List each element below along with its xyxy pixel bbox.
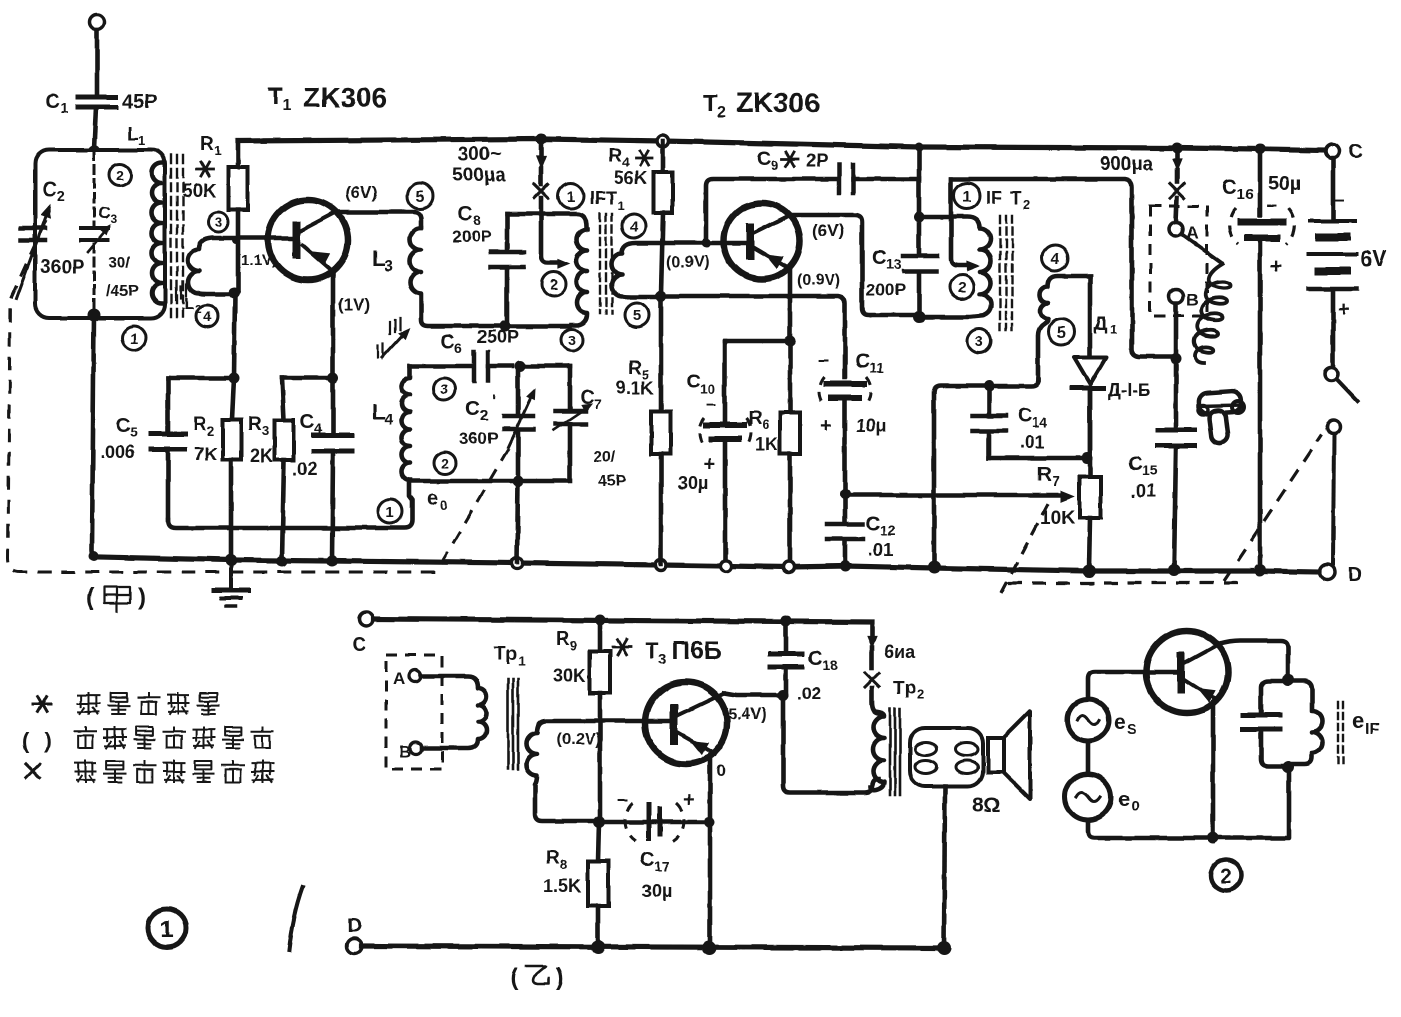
svg-text:10µ: 10µ — [856, 416, 886, 436]
input dashed box — [386, 655, 442, 769]
wire R7 wiper arrow — [845, 493, 1062, 498]
coil IFT1 secondary — [612, 243, 664, 297]
node C11/C12/R7 junction — [840, 489, 851, 500]
resistor R6 1K — [780, 412, 800, 454]
node rail C16 — [1255, 144, 1266, 155]
resistor R9 30K — [598, 620, 603, 651]
svg-text:e: e — [1118, 788, 1130, 811]
svg-text:2: 2 — [550, 276, 558, 293]
coil L4 oscillator — [402, 366, 411, 480]
node C14 top — [984, 381, 995, 392]
svg-text:360P: 360P — [459, 429, 499, 448]
current break mark x — [534, 184, 548, 198]
svg-text:IF: IF — [1365, 721, 1379, 738]
capacitor C14 .01 — [987, 386, 992, 412]
transformer Tp1 secondary / T3 base wire — [527, 721, 671, 821]
svg-text:C: C — [458, 203, 472, 225]
node rail C18 — [781, 616, 792, 627]
capacitor C13 200P — [903, 254, 937, 259]
svg-text:R: R — [608, 146, 622, 167]
capacitor C15 .01 — [1174, 359, 1179, 427]
svg-text:+: + — [820, 415, 832, 437]
switch blade A to cord — [1182, 234, 1222, 263]
capacitor C11 10u electrolytic — [826, 381, 864, 387]
svg-text:C: C — [45, 91, 59, 113]
node rail C2-prime — [512, 558, 523, 569]
svg-text:–: – — [818, 349, 829, 371]
wire tank bottom to ground rail — [92, 315, 99, 557]
tank enclosure box L1/C2/C3 — [35, 150, 165, 318]
resistor R1 50K — [236, 141, 241, 167]
legend text line 3 — [75, 761, 96, 782]
svg-text:3: 3 — [658, 651, 666, 668]
svg-text:C: C — [352, 634, 366, 656]
svg-text:3: 3 — [440, 381, 448, 397]
node ground rail C15 — [1168, 564, 1180, 576]
node lower ground rail R8 — [591, 940, 605, 954]
wire antenna to C1 — [95, 30, 100, 93]
power switch — [1325, 368, 1338, 381]
svg-text:2: 2 — [441, 455, 449, 471]
node emitter/C17 junction — [704, 817, 715, 828]
svg-text:20/: 20/ — [593, 449, 616, 466]
wire L4 tap to C2-prime bottom — [410, 479, 566, 484]
pin 4 of L2 — [196, 305, 218, 327]
svg-text:30µ: 30µ — [642, 881, 672, 901]
svg-text:1: 1 — [567, 189, 576, 206]
wire detector line 900ua — [951, 179, 1172, 357]
svg-text:45P: 45P — [598, 473, 627, 490]
svg-text:R: R — [1037, 464, 1052, 486]
svg-text:(6V): (6V) — [345, 183, 377, 202]
pin 2 of L1 — [109, 164, 131, 186]
svg-text:7: 7 — [594, 396, 602, 412]
svg-text:30/: 30/ — [108, 255, 131, 272]
pin 5 of IFT1 — [625, 303, 649, 327]
pin 3 of IFT2 — [967, 329, 991, 353]
svg-text:.02: .02 — [292, 459, 317, 479]
node emitter/R3 junction — [328, 373, 339, 384]
legend x symbol — [26, 764, 40, 778]
svg-text:16: 16 — [1237, 186, 1254, 203]
node rail R4 — [657, 135, 669, 147]
svg-text:C: C — [300, 411, 314, 433]
transformer Tp1 primary — [421, 676, 487, 748]
svg-text:1: 1 — [160, 916, 173, 943]
svg-text:1: 1 — [1110, 322, 1117, 337]
svg-text:5: 5 — [416, 189, 425, 206]
node ground rail R7 — [1083, 565, 1096, 578]
node emitter bottom — [1207, 832, 1219, 844]
svg-text:0: 0 — [440, 497, 448, 513]
svg-text:2: 2 — [917, 687, 924, 702]
svg-text:+: + — [1338, 298, 1350, 321]
current break mark x 6ua — [865, 673, 879, 687]
pin 1 of L4 — [378, 499, 402, 523]
svg-text:15: 15 — [1142, 462, 1158, 478]
antenna terminal — [90, 15, 105, 30]
svg-text:4: 4 — [630, 218, 639, 235]
capacitor C4 .02 — [314, 433, 352, 438]
pin 3 of L2 — [208, 212, 228, 232]
current break mark x 900ua — [1170, 184, 1184, 198]
svg-text:0: 0 — [716, 761, 725, 780]
wire C1 to tank box — [94, 107, 96, 149]
wire IFT1-4 to T2 base — [663, 241, 747, 246]
svg-text:Tp: Tp — [893, 678, 916, 699]
svg-text:Д: Д — [1094, 314, 1108, 335]
svg-text:A: A — [393, 669, 405, 688]
svg-text:7K: 7K — [194, 444, 217, 464]
svg-text:T: T — [703, 90, 718, 117]
svg-text:T: T — [1010, 188, 1021, 208]
wire bottom loop — [1088, 773, 1289, 838]
capacitor C12 .01 — [827, 522, 863, 527]
node rail R3 — [277, 556, 288, 567]
pin 2 of L4 — [434, 452, 456, 474]
svg-text:.01: .01 — [1131, 481, 1156, 501]
resistor R2 7K — [232, 378, 234, 420]
svg-text:9: 9 — [570, 638, 577, 653]
node base line crossing — [232, 236, 240, 244]
wire lower supply rail — [373, 619, 872, 622]
node emitter/C10 junction — [785, 336, 796, 347]
svg-text:C: C — [640, 849, 654, 871]
svg-text:C: C — [872, 247, 886, 269]
pin 1 of IFT1 — [558, 183, 584, 209]
label circled 2 — [1211, 860, 1242, 891]
svg-text:–: – — [1266, 195, 1277, 216]
wire T1 collector to L3 — [336, 212, 421, 228]
core of L1/L2 transformer — [170, 155, 172, 318]
capacitor C18 .02 — [784, 621, 789, 651]
svg-text:9.1K: 9.1K — [616, 378, 654, 398]
svg-text:П6Б: П6Б — [672, 637, 722, 665]
wire C14 to R7 top — [989, 456, 1087, 461]
svg-text:1: 1 — [963, 189, 972, 206]
capacitor C10 30u electrolytic — [725, 339, 790, 344]
svg-text:.01: .01 — [868, 540, 893, 560]
svg-text:T: T — [268, 83, 283, 110]
svg-text:18: 18 — [822, 657, 838, 673]
coil IFT2 secondary — [1038, 276, 1090, 380]
core of Tp1 — [507, 679, 510, 769]
node lower ground rail Tp2 — [937, 941, 951, 955]
svg-text:2: 2 — [717, 104, 726, 121]
wire Tp2 secondary to ground rail — [944, 786, 945, 947]
svg-text:1.5K: 1.5K — [543, 876, 581, 896]
dashed linkage right R7 and switch — [1001, 500, 1050, 593]
svg-text:): ) — [44, 728, 51, 753]
svg-text:200P: 200P — [866, 280, 906, 299]
pin 3 of IFT1 — [561, 329, 583, 351]
wire T1 emitter to C4 — [331, 272, 336, 432]
node collector/C18/Tp2 — [778, 690, 789, 701]
resistor R8 1.5K — [598, 822, 599, 861]
svg-text:C: C — [1222, 176, 1237, 199]
node phone jack B — [1171, 354, 1182, 365]
svg-text:e: e — [1114, 711, 1126, 734]
diode D1 type D-1-B — [1088, 276, 1093, 356]
node rail R6 — [784, 562, 795, 573]
svg-text:C: C — [855, 351, 869, 373]
legend star symbol — [33, 703, 51, 706]
svg-text:1: 1 — [130, 330, 138, 347]
node C2-prime top — [515, 361, 526, 372]
svg-text:17: 17 — [654, 858, 670, 874]
svg-text:(6V): (6V) — [812, 221, 844, 240]
node C13 bottom / collector / IFT2-3 — [913, 311, 925, 323]
core of IFT2 — [999, 216, 1001, 330]
adjustable core mark — [389, 322, 391, 334]
node rail C4 — [327, 556, 338, 567]
svg-text:+: + — [683, 789, 695, 811]
svg-text:+: + — [1270, 255, 1282, 278]
wire T2 collector to C13 bottom — [790, 215, 914, 315]
battery 6V — [1331, 158, 1336, 218]
svg-text:7: 7 — [1052, 473, 1060, 489]
tap wire IFT2 pin2 to detector line — [951, 179, 966, 265]
wire IFT1-5 to C11 — [661, 296, 845, 377]
svg-text:(5.4V): (5.4V) — [723, 706, 767, 723]
svg-text:–: – — [617, 789, 628, 811]
wire IFT2-5 to ground rail — [934, 380, 1038, 566]
resistor R3 2K — [282, 376, 332, 381]
wire 300-500ua measuring branch — [539, 139, 544, 158]
svg-text:0: 0 — [1131, 798, 1139, 815]
svg-text:3: 3 — [262, 423, 269, 438]
svg-text:(1V): (1V) — [338, 295, 370, 314]
svg-text:300~: 300~ — [458, 144, 501, 165]
svg-text:R: R — [556, 629, 570, 650]
source e0 — [1065, 774, 1111, 820]
wire R1 bottom to R2 — [234, 293, 235, 378]
svg-text:+: + — [704, 453, 716, 475]
node R4/IFT1-5/C11 junction — [656, 291, 667, 302]
svg-text:C: C — [116, 415, 130, 437]
svg-text:1K: 1K — [755, 434, 778, 454]
terminal C — [1325, 144, 1339, 158]
wire collector to tank — [1220, 641, 1288, 673]
wire inner branch C3 — [93, 152, 96, 226]
terminal B — [1169, 289, 1183, 303]
svg-text:3: 3 — [384, 258, 393, 275]
coil L2 base winding — [188, 238, 296, 294]
svg-text:11: 11 — [869, 360, 884, 376]
ground symbol — [229, 561, 233, 588]
node rail 300-500ua branch — [536, 134, 547, 145]
svg-text:R: R — [248, 414, 262, 435]
svg-text:8: 8 — [473, 212, 481, 228]
wire 900ua measuring break — [1175, 148, 1180, 161]
core of Tp2 — [889, 709, 892, 795]
svg-text:ZK306: ZK306 — [736, 87, 820, 118]
node ground rail C16 — [1254, 564, 1266, 576]
svg-text:C: C — [440, 331, 454, 353]
svg-text:45P: 45P — [122, 91, 158, 113]
svg-text:.02: .02 — [797, 684, 821, 703]
svg-text:R: R — [628, 358, 642, 379]
transformer Tp2 secondary — [910, 728, 983, 786]
terminal C lower — [359, 612, 373, 626]
svg-text:250P: 250P — [477, 327, 519, 347]
svg-text:6V: 6V — [1360, 246, 1387, 271]
svg-text:C: C — [580, 387, 594, 409]
potentiometer R7 10K — [1088, 391, 1093, 477]
svg-text:3: 3 — [110, 212, 117, 226]
terminal D — [1320, 565, 1335, 580]
svg-text:R: R — [193, 414, 207, 435]
svg-text:e: e — [1352, 708, 1364, 733]
speaker 8 ohm — [988, 738, 1004, 772]
svg-text:C: C — [1018, 405, 1032, 427]
node C2-prime bottom — [513, 476, 524, 487]
svg-text:C: C — [98, 203, 110, 222]
svg-text:30K: 30K — [553, 666, 586, 686]
svg-text:S: S — [1127, 721, 1137, 738]
node tank bottom — [88, 309, 101, 322]
svg-text:.01: .01 — [1020, 432, 1045, 452]
svg-text:2: 2 — [1023, 197, 1030, 212]
source es — [1067, 699, 1109, 741]
legend text line 2 — [75, 727, 96, 748]
svg-text:1: 1 — [282, 97, 291, 114]
pin 1 of L1 — [122, 326, 146, 350]
svg-text:5: 5 — [1057, 325, 1066, 342]
svg-text:2P: 2P — [806, 151, 828, 171]
core marks — [1337, 702, 1339, 765]
svg-text:5: 5 — [130, 424, 138, 440]
trimmer capacitor C7 20/45P — [568, 366, 573, 408]
pin 3 of L4 — [433, 378, 455, 400]
svg-text:2: 2 — [958, 279, 966, 296]
svg-text:–: – — [1334, 190, 1345, 211]
svg-text:360P: 360P — [40, 257, 85, 278]
svg-text:C: C — [465, 397, 480, 420]
svg-text:1: 1 — [60, 100, 68, 116]
equivalent circuit transistor — [1146, 631, 1228, 713]
trimmer capacitor C3 30/45P — [81, 226, 108, 230]
wire emitter — [1211, 703, 1216, 838]
wire base — [1088, 672, 1178, 699]
svg-text:/45P: /45P — [106, 283, 139, 300]
svg-text:56K: 56K — [614, 168, 647, 188]
svg-text:C: C — [757, 148, 771, 170]
svg-text:900µa: 900µa — [1100, 154, 1154, 175]
wire ground rail — [99, 557, 1319, 572]
jack dashed box — [1150, 206, 1207, 316]
transformer Tp2 primary — [870, 712, 884, 790]
node rail C2-box — [89, 551, 99, 561]
transistor T3 P6B — [645, 682, 727, 764]
svg-text:ZK306: ZK306 — [303, 82, 387, 113]
svg-text:8Ω: 8Ω — [972, 794, 1001, 817]
svg-text:4: 4 — [384, 412, 393, 429]
label circled 1 figure — [148, 909, 186, 947]
node rail R5 — [656, 560, 667, 571]
wire bottom line to IFT1 primary — [505, 324, 570, 329]
svg-text:D: D — [347, 915, 361, 937]
svg-text:T: T — [645, 638, 659, 663]
svg-text:(0.9V): (0.9V) — [666, 254, 710, 271]
pin 5 of IFT2 — [1048, 319, 1074, 345]
svg-text:3: 3 — [975, 333, 983, 350]
wire T2 emitter — [788, 269, 793, 412]
svg-text:IF: IF — [986, 188, 1002, 208]
svg-text:200P: 200P — [452, 227, 492, 246]
wire C18/collector to Tp2 primary bottom — [783, 695, 878, 793]
svg-text:(: ( — [22, 728, 30, 753]
svg-text:IFT: IFT — [590, 188, 617, 208]
svg-text:1: 1 — [518, 653, 525, 668]
svg-text:1: 1 — [617, 198, 624, 213]
wire C8 top to IFT1 primary top — [507, 214, 586, 226]
svg-text:12: 12 — [880, 522, 896, 538]
svg-text:14: 14 — [1032, 414, 1048, 430]
pin 5 of L3 — [407, 183, 433, 209]
svg-text:30µ: 30µ — [678, 473, 708, 493]
node rail C10 — [721, 561, 732, 572]
coil L3 oscillator winding — [410, 228, 500, 326]
node diode/R7/C14 junction — [1082, 453, 1093, 464]
pin 4 of IFT2 — [1042, 245, 1068, 271]
tank capacitor — [1261, 681, 1288, 712]
svg-text:(: ( — [510, 964, 518, 991]
coil L1 antenna winding — [152, 163, 162, 303]
legend text line 1 — [78, 693, 99, 714]
resistor R4 56K — [661, 141, 666, 172]
wire top supply rail — [238, 139, 1325, 150]
transistor T2 ZK306 — [724, 203, 800, 279]
transistor T1 ZK306 — [268, 200, 348, 280]
svg-text:4: 4 — [203, 308, 211, 324]
svg-text:B: B — [1186, 290, 1198, 309]
svg-text:R: R — [546, 848, 560, 869]
svg-text:.006: .006 — [100, 442, 135, 462]
node L2 bottom / bias divider — [229, 288, 240, 299]
pin 2 of IFT2 — [950, 275, 974, 299]
svg-text:2K: 2K — [250, 446, 273, 466]
svg-text:): ) — [138, 584, 146, 611]
wire rail to Tp2 primary top / 6ua break — [870, 622, 875, 637]
capacitor C5 .006 — [168, 376, 234, 381]
svg-text:4: 4 — [314, 420, 322, 436]
svg-text:': ' — [492, 392, 496, 412]
capacitor C6 250P — [410, 364, 471, 369]
pin 4 of IFT1 — [622, 214, 646, 238]
svg-text:13: 13 — [886, 256, 902, 272]
node rail R9 — [595, 615, 606, 626]
svg-text:R: R — [200, 134, 214, 155]
node rail 900ua branch — [1172, 143, 1183, 154]
node ground rail C12 — [840, 561, 851, 572]
svg-text:2: 2 — [116, 167, 124, 183]
node T2 base / C9 — [701, 238, 711, 248]
wire rail to C13 top — [917, 147, 922, 253]
svg-text:6: 6 — [454, 340, 462, 356]
node tank bottom — [1282, 761, 1294, 773]
capacitor C1 45P — [78, 95, 116, 100]
svg-text:(0.2V): (0.2V) — [557, 731, 601, 748]
svg-text:(: ( — [86, 584, 94, 611]
svg-text:1: 1 — [214, 143, 221, 158]
pin 1 of IFT2 — [954, 183, 980, 209]
svg-text:6: 6 — [762, 417, 769, 432]
svg-text:4: 4 — [1051, 251, 1060, 268]
node rail IFT2 — [915, 143, 924, 152]
node antenna/tank junction — [88, 145, 100, 157]
capacitor C16 50u electrolytic — [1258, 149, 1263, 215]
